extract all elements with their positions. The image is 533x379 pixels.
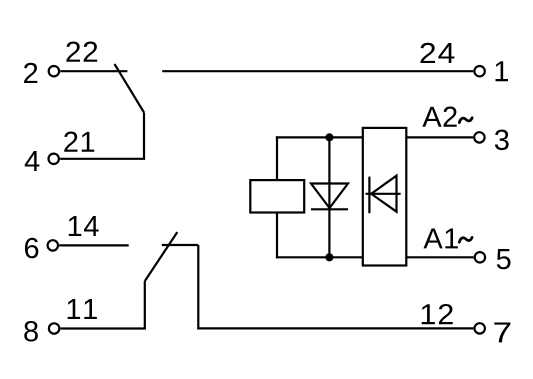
terminal 8 circle [49,323,59,333]
wire vertical 12 riser [197,245,199,328]
wire 11 from terminal 8 [61,327,146,329]
terminal 1 circle [474,66,484,76]
rectifier U1 diode triangle [371,176,396,212]
wire coil top lead [276,136,278,180]
terminal label 21 [64,132,94,152]
junction node bottom [325,253,333,261]
rectifier U1 cathode bar [368,177,370,214]
wire 22 from terminal 2 [60,70,127,72]
wire vertical 11 riser [144,281,146,328]
wire 14 contact tick [162,244,199,246]
terminal 5 circle [475,252,485,262]
pin label 5 [497,249,511,269]
wire 21 from terminal 4 [60,158,145,160]
wire coil bottom lead [276,213,278,259]
switch blade contact 11-14 [145,232,178,281]
pin label 4 [25,151,40,171]
terminal label 12 [422,304,453,324]
terminal label 24 [421,43,455,63]
tilde of A2~ [459,118,472,123]
wire 12 to terminal 7 [197,327,473,329]
terminal label A1 [423,228,457,248]
switch blade contact 22 [115,64,145,113]
terminal label 11 [68,299,97,319]
diode V1 cathode bar [311,208,348,210]
tilde of A1~ [459,237,472,242]
pin label 7 [494,322,510,342]
terminal 3 circle [474,132,484,142]
relay coil K1 [250,180,304,212]
wire diode branch [328,137,330,257]
diode V1 triangle [311,184,348,209]
wire A2 to terminal 3 [406,136,473,138]
pin label 8 [24,321,38,342]
rectifier module box U1 [363,128,407,266]
junction node top [325,133,333,141]
pin label 6 [25,238,38,259]
pin label 2 [24,63,37,83]
terminal 2 circle [49,66,59,76]
wire bottom rail A1 [276,256,363,258]
wire A1 to terminal 5 [406,256,473,258]
wire vertical 21 riser [143,113,145,159]
pin label 3 [495,130,509,151]
wire top rail A2 [276,136,363,138]
pin label 1 [496,61,509,81]
wire 24 to terminal 1 [162,70,473,72]
rectifier U1 through line [366,193,401,195]
terminal label 14 [69,216,99,236]
terminal 6 circle [48,240,58,250]
terminal 4 circle [49,154,59,164]
terminal 7 circle [475,323,485,333]
terminal label A2 [422,107,456,127]
wire 14 from terminal 6 [59,244,129,246]
terminal label 22 [66,42,97,62]
